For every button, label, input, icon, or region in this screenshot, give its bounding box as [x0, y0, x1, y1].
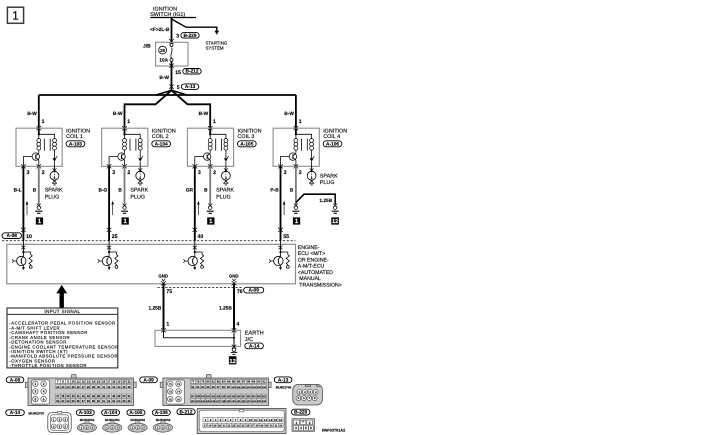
svg-text:124: 124 [201, 400, 206, 403]
ignition coil 2 label [152, 128, 176, 147]
svg-text:B-W: B-W [199, 111, 209, 117]
svg-text:131: 131 [236, 400, 241, 403]
connector B-229 pinout label [292, 409, 310, 416]
ECU driver transistor Q1 [12, 241, 26, 270]
connector B-212 pin 15 [175, 69, 201, 76]
svg-text:16: 16 [279, 418, 283, 422]
connector A-08 pin 40 [193, 228, 204, 240]
svg-text:5: 5 [35, 397, 37, 401]
svg-text:117: 117 [242, 395, 247, 398]
ECU driver resistor R3 [195, 252, 204, 268]
wire B-W to ignition coil 3 [172, 90, 211, 134]
svg-text:110: 110 [206, 395, 211, 398]
svg-text:101: 101 [236, 386, 241, 389]
connector B-212 pinout label [177, 409, 195, 416]
svg-text:15: 15 [175, 70, 181, 76]
svg-text:30: 30 [265, 425, 268, 428]
coil 2 primary winding [123, 128, 127, 152]
coil 4 pin 2 [294, 164, 302, 176]
ignition coil 4 label [323, 128, 347, 147]
wire B-G coil 2 to ECU [99, 166, 110, 241]
wire B coil 4 to ground [290, 166, 296, 204]
svg-text:28: 28 [87, 385, 91, 389]
svg-text:20: 20 [122, 380, 126, 384]
svg-text:COIL 2: COIL 2 [152, 134, 169, 140]
svg-text:MU802052: MU802052 [130, 418, 145, 422]
svg-text:47: 47 [107, 394, 111, 398]
svg-text:21: 21 [127, 380, 131, 384]
svg-text:63: 63 [112, 399, 116, 403]
svg-text:122: 122 [191, 400, 196, 403]
ignition coil 4 box A-106 [273, 128, 319, 166]
svg-text:COIL 4: COIL 4 [323, 134, 340, 140]
svg-text:A-09: A-09 [248, 288, 259, 294]
svg-text:95: 95 [206, 385, 210, 389]
spark plug 2 label [130, 188, 148, 201]
svg-text:B-W: B-W [113, 111, 123, 117]
svg-text:B-212: B-212 [179, 409, 192, 415]
svg-text:A-08: A-08 [7, 233, 18, 239]
svg-text:35: 35 [122, 385, 126, 389]
svg-text:2: 2 [43, 382, 45, 386]
ground point coil 2 [121, 204, 128, 214]
svg-text:115: 115 [231, 395, 236, 398]
svg-text:27: 27 [82, 385, 86, 389]
svg-text:1: 1 [12, 9, 19, 23]
svg-text:37: 37 [56, 394, 60, 398]
coil 4 core [301, 139, 307, 151]
wire branch to starting system [172, 19, 220, 35]
fuse 26 10A [159, 44, 173, 64]
connector A-08 pin 25 [107, 228, 118, 240]
svg-text:A-106: A-106 [155, 410, 168, 416]
svg-text:PLUG: PLUG [320, 180, 335, 186]
svg-text:J/C: J/C [245, 336, 253, 343]
input signal box [7, 308, 118, 368]
coil 1 power transistor [23, 152, 39, 166]
earth J/C pin 1 [161, 321, 169, 332]
ignition switch (IG1) label [150, 6, 196, 18]
svg-text:5: 5 [305, 426, 307, 430]
svg-text:MU802052: MU802052 [156, 418, 171, 422]
svg-text:SYSTEM: SYSTEM [206, 46, 224, 51]
svg-text:EARTH: EARTH [245, 331, 264, 337]
svg-text:77: 77 [191, 380, 195, 384]
svg-text:A-106: A-106 [326, 142, 339, 148]
svg-text:135: 135 [257, 400, 262, 403]
svg-text:12: 12 [259, 418, 263, 422]
svg-text:132: 132 [242, 400, 247, 403]
connector A-106 pinout [153, 422, 172, 432]
svg-text:ENGINE-: ENGINE- [298, 245, 320, 251]
svg-text:A-13: A-13 [278, 377, 289, 383]
svg-text:MU802052: MU802052 [105, 418, 120, 422]
svg-text:1: 1 [42, 119, 45, 125]
svg-text:32: 32 [107, 385, 111, 389]
coil 1 secondary diode [53, 152, 58, 166]
coil 3 secondary winding [210, 134, 228, 152]
svg-text:10: 10 [26, 234, 32, 240]
svg-text:PLUG: PLUG [130, 194, 145, 200]
svg-text:36: 36 [127, 385, 131, 389]
svg-text:TRANSMISSION>: TRANSMISSION> [299, 282, 342, 288]
ECU driver resistor R4 [281, 252, 290, 268]
svg-text:B-229: B-229 [183, 33, 196, 39]
ground reference 12 (earth J/C) [229, 356, 237, 365]
wire B coil 2 to ground [118, 166, 124, 204]
svg-text:27: 27 [251, 425, 254, 428]
svg-text:GND: GND [229, 274, 239, 279]
svg-text:3: 3 [295, 426, 297, 430]
coil 3 pin 2 [208, 164, 216, 176]
svg-text:105: 105 [257, 386, 262, 389]
svg-text:55: 55 [283, 234, 289, 240]
connector A-08 pinout label [6, 377, 24, 384]
svg-text:28: 28 [256, 425, 259, 428]
svg-text:107: 107 [191, 395, 196, 398]
coil 4 secondary winding [296, 134, 314, 152]
svg-text:A-103: A-103 [69, 142, 82, 148]
earth J/C box A-14 [155, 330, 241, 346]
svg-text:10: 10 [249, 418, 253, 422]
connector A-105 pinout label [127, 410, 145, 422]
svg-text:12: 12 [82, 380, 86, 384]
ignition coil 1 label [66, 128, 90, 147]
svg-text:92: 92 [191, 385, 195, 389]
svg-text:97: 97 [217, 385, 221, 389]
coil 3 secondary diode [224, 152, 229, 166]
wire B-W to ignition coil 2 [113, 90, 172, 134]
svg-text:75: 75 [166, 289, 172, 295]
svg-text:64: 64 [117, 399, 121, 403]
svg-text:102: 102 [242, 386, 247, 389]
svg-text:HNF03T01A2: HNF03T01A2 [322, 429, 345, 433]
svg-text:129: 129 [226, 400, 231, 403]
svg-text:45: 45 [97, 394, 101, 398]
svg-text:A-09: A-09 [143, 377, 154, 383]
wire B coil 1 to ground [33, 166, 39, 204]
ground reference 1 (coil 2) [122, 217, 129, 225]
svg-text:3: 3 [198, 170, 201, 176]
svg-text:19: 19 [117, 380, 121, 384]
wire B-W to ignition coil 1 [27, 95, 39, 134]
wire B-W to ignition coil 4 [284, 95, 296, 134]
coil 2 pin 2 [122, 164, 130, 176]
coil 3 power transistor [195, 152, 211, 166]
coil 2 power transistor [109, 152, 125, 166]
ECU driver resistor R2 [109, 252, 118, 268]
ignition coil 1 pin 1 [37, 119, 45, 130]
svg-text:136: 136 [262, 400, 267, 403]
spark plug 1 [50, 166, 59, 185]
earth J/C internal bus [164, 330, 236, 346]
node: B-W distribution junction [156, 90, 187, 95]
coil 3 pin 3 [193, 164, 201, 176]
connector A-14 pinout label [6, 410, 45, 416]
svg-text:118: 118 [247, 395, 252, 398]
svg-text:78: 78 [196, 380, 200, 384]
svg-text:15: 15 [274, 418, 278, 422]
coil 1 pin 2 [37, 164, 45, 176]
connector A-105 pinout [128, 422, 147, 432]
svg-text:5: 5 [177, 85, 180, 91]
svg-text:33: 33 [279, 425, 282, 428]
ECU driver transistor Q4 [269, 241, 283, 270]
svg-text:B-W: B-W [27, 111, 37, 117]
connector A-08 label [2, 233, 22, 239]
svg-text:COIL 3: COIL 3 [238, 134, 255, 140]
coil 2 core [130, 139, 136, 151]
svg-text:84: 84 [227, 380, 231, 384]
svg-text:87: 87 [242, 380, 246, 384]
svg-text:2: 2 [42, 170, 45, 176]
spark plug 2 [136, 166, 145, 185]
svg-text:79: 79 [201, 380, 205, 384]
ground reference 1 (coil 1) [36, 217, 43, 225]
svg-text:14: 14 [92, 380, 96, 384]
svg-text:39: 39 [66, 394, 70, 398]
svg-text:1: 1 [299, 119, 302, 125]
svg-text:57: 57 [82, 399, 86, 403]
svg-text:B-229: B-229 [294, 410, 307, 416]
coil 4 primary winding [294, 128, 298, 152]
signal direction arrow coil 4 [283, 202, 285, 215]
wire label <F>2L-B [150, 27, 170, 33]
wire B-L coil 1 to ECU [14, 166, 24, 241]
svg-text:40: 40 [71, 394, 75, 398]
input signal sensor list [9, 321, 118, 368]
svg-text:90: 90 [257, 380, 261, 384]
svg-text:81: 81 [211, 380, 215, 384]
connector A-08 boundary (dashed) [2, 240, 296, 242]
connector B-229 pinout [292, 419, 315, 432]
svg-text:B: B [290, 188, 294, 194]
svg-text:1.25B: 1.25B [219, 306, 232, 312]
svg-text:B-L: B-L [14, 188, 22, 194]
svg-text:76: 76 [237, 289, 243, 295]
svg-text:60: 60 [97, 399, 101, 403]
svg-text:25: 25 [112, 234, 118, 240]
svg-text:B-G: B-G [99, 188, 108, 194]
svg-text:96: 96 [211, 385, 215, 389]
svg-text:29: 29 [92, 385, 96, 389]
connector A-13 pinout label [274, 377, 292, 390]
svg-text:B: B [204, 188, 208, 194]
input signal arrow into ECU [56, 285, 67, 308]
svg-text:3: 3 [35, 390, 37, 394]
coil 1 core [44, 139, 50, 151]
wire GR coil 3 to ECU [186, 166, 195, 241]
ECU driver transistor Q3 [183, 241, 197, 270]
svg-text:12: 12 [332, 219, 338, 225]
svg-text:4: 4 [300, 426, 302, 430]
svg-text:20: 20 [218, 425, 221, 428]
coil 1 pin 3 [21, 164, 29, 176]
wire label B-W [159, 75, 169, 81]
svg-text:61: 61 [102, 399, 106, 403]
svg-text:31: 31 [270, 425, 273, 428]
svg-text:A-105: A-105 [240, 142, 253, 148]
ignition coil 1 box A-103 [16, 128, 62, 166]
svg-text:86: 86 [237, 380, 241, 384]
svg-text:MANUAL: MANUAL [299, 276, 321, 282]
spark plug 3 [222, 166, 231, 185]
wire B-W bus [39, 94, 296, 96]
svg-text:B: B [33, 188, 37, 194]
svg-text:1: 1 [166, 321, 169, 327]
svg-text:ECU <M/T>: ECU <M/T> [298, 251, 325, 257]
signal direction arrow coil 3 [197, 202, 199, 215]
svg-text:17: 17 [107, 380, 111, 384]
svg-text:A-14: A-14 [249, 343, 260, 349]
svg-text:127: 127 [216, 400, 221, 403]
svg-text:3: 3 [112, 170, 115, 176]
diagram code [322, 429, 345, 433]
svg-text:17: 17 [204, 425, 207, 428]
svg-text:A-08: A-08 [10, 377, 21, 383]
connector A-104 pinout label [102, 410, 120, 422]
coil 2 secondary diode [138, 152, 143, 166]
svg-text:A-104: A-104 [155, 142, 168, 148]
ECU GND pin 75 [158, 274, 172, 295]
svg-text:4: 4 [43, 390, 45, 394]
svg-text:43: 43 [87, 394, 91, 398]
svg-text:3: 3 [27, 170, 30, 176]
svg-text:26: 26 [246, 425, 249, 428]
ground point 1.25B branch [332, 204, 339, 214]
svg-text:93: 93 [196, 385, 200, 389]
svg-text:MU802700: MU802700 [29, 411, 45, 415]
wire 2L-B from ignition switch [171, 18, 173, 45]
coil 4 pin 3 [278, 164, 286, 176]
svg-text:-THROTTLE POSITION SENSOR: -THROTTLE POSITION SENSOR [9, 363, 87, 368]
svg-text:55: 55 [71, 399, 75, 403]
svg-text:26: 26 [77, 385, 81, 389]
svg-text:103: 103 [247, 386, 252, 389]
coil 2 pin 3 [107, 164, 115, 176]
wire 1.25B right to earth J/C [219, 284, 234, 331]
svg-text:19: 19 [213, 425, 216, 428]
connector A-09 pinout label [140, 377, 158, 384]
spark plug 4 [307, 166, 316, 185]
svg-text:99: 99 [227, 385, 231, 389]
svg-text:<F>2L-B: <F>2L-B [150, 27, 170, 33]
svg-text:59: 59 [92, 399, 96, 403]
svg-text:83: 83 [222, 380, 226, 384]
svg-text:SPARK: SPARK [45, 188, 63, 194]
svg-text:109: 109 [201, 395, 206, 398]
svg-text:2: 2 [127, 170, 130, 176]
svg-text:J/B: J/B [143, 43, 151, 49]
connector A-103 pinout label [76, 410, 94, 422]
coil 4 power transistor [281, 152, 297, 166]
ground below earth J/C [231, 345, 237, 355]
coil 2 secondary winding [125, 134, 143, 152]
connector A-104 pinout [103, 422, 122, 432]
svg-text:10: 10 [71, 380, 75, 384]
svg-text:1.25B: 1.25B [148, 306, 161, 312]
svg-text:SPARK: SPARK [216, 188, 234, 194]
svg-text:91: 91 [262, 380, 266, 384]
ignition coil 3 label [238, 128, 262, 147]
ground point coil 4 [292, 204, 299, 214]
wire P-B coil 4 to ECU [270, 166, 280, 241]
svg-text:108: 108 [196, 395, 201, 398]
svg-text:B: B [118, 188, 122, 194]
svg-text:OR ENGINE-: OR ENGINE- [298, 257, 329, 263]
svg-text:34: 34 [117, 385, 121, 389]
svg-text:22: 22 [56, 385, 60, 389]
svg-text:SPARK: SPARK [320, 174, 338, 180]
svg-text:23: 23 [61, 385, 65, 389]
svg-text:54: 54 [66, 399, 70, 403]
ECU driver transistor Q2 [98, 241, 112, 270]
engine ECU box [7, 244, 296, 283]
connector A-09 pinout [160, 375, 271, 406]
svg-text:26: 26 [160, 48, 165, 53]
ECU GND pin 76 [229, 274, 243, 295]
svg-text:COIL 1: COIL 1 [66, 134, 83, 140]
wire 1.25B left to earth J/C [148, 284, 163, 331]
spark plug 3 label [216, 188, 234, 201]
svg-text:B-W: B-W [284, 111, 294, 117]
svg-text:65: 65 [122, 399, 126, 403]
svg-text:16: 16 [102, 380, 106, 384]
ignition coil 3 pin 1 [208, 119, 216, 130]
signal direction arrow coil 2 [112, 202, 114, 215]
coil 3 core [216, 139, 222, 151]
ECU driver resistor R1 [23, 252, 32, 268]
svg-text:120: 120 [257, 395, 262, 398]
svg-text:40: 40 [198, 234, 204, 240]
svg-text:113: 113 [221, 395, 226, 398]
svg-text:2: 2 [213, 170, 216, 176]
svg-text:30: 30 [97, 385, 101, 389]
ignition coil 2 pin 1 [122, 119, 130, 130]
svg-text:25: 25 [71, 385, 75, 389]
svg-text:128: 128 [221, 400, 226, 403]
svg-text:123: 123 [196, 400, 201, 403]
svg-text:53: 53 [61, 399, 65, 403]
svg-text:24: 24 [237, 425, 240, 428]
wire 1.25B ground branch [296, 194, 335, 204]
svg-text:121: 121 [262, 395, 267, 398]
svg-text:125: 125 [206, 400, 211, 403]
svg-text:111: 111 [211, 395, 215, 398]
svg-text:A-M/T-ECU: A-M/T-ECU [298, 264, 325, 270]
connector A-08 pin 55 [278, 228, 289, 240]
svg-text:46: 46 [102, 394, 106, 398]
svg-text:82: 82 [217, 380, 221, 384]
svg-text:1: 1 [35, 382, 37, 386]
coil 1 secondary winding [39, 134, 57, 152]
svg-text:PLUG: PLUG [216, 194, 231, 200]
svg-text:41: 41 [77, 394, 81, 398]
svg-text:14: 14 [269, 418, 273, 422]
svg-text:66: 66 [127, 399, 131, 403]
svg-text:B-W: B-W [159, 75, 169, 81]
svg-text:52: 52 [56, 399, 60, 403]
svg-text:2: 2 [299, 170, 302, 176]
signal direction arrow coil 1 [26, 202, 28, 215]
svg-text:MU802749: MU802749 [276, 386, 292, 390]
ground point coil 1 [35, 204, 42, 214]
svg-text:6: 6 [310, 426, 312, 430]
svg-text:56: 56 [77, 399, 81, 403]
svg-text:25: 25 [242, 425, 245, 428]
svg-text:P-B: P-B [270, 188, 279, 194]
svg-text:98: 98 [222, 385, 226, 389]
